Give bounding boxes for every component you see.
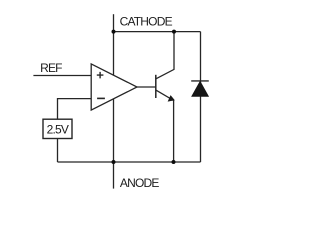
wire: anode lead (113, 162, 115, 189)
op-amp minus input symbol (97, 97, 105, 99)
wire: diode branch (200, 32, 202, 162)
wire: top cathode rail (114, 31, 201, 33)
op-amp U1 comparator triangle (91, 64, 137, 110)
wire: inverting input from voltage reference (58, 99, 92, 120)
wire: op-amp negative supply drop (113, 96, 115, 162)
wire: REF lead to non-inverting input (33, 75, 91, 77)
voltage reference box 2.5V (43, 119, 72, 138)
junction node: collector branch / top rail (172, 30, 176, 34)
diode D1 anode triangle (192, 82, 209, 97)
wire: op-amp output to base (137, 86, 156, 88)
transistor Q1 base bar (155, 75, 157, 98)
transistor Q1 emitter arrowhead (168, 96, 174, 101)
junction node: cathode lead / top rail (112, 30, 116, 34)
wire: transistor collector branch (156, 32, 174, 79)
junction node: emitter / bottom rail (172, 160, 176, 164)
wire: reference to anode rail (57, 139, 59, 163)
svg-text:CATHODE: CATHODE (120, 15, 173, 29)
svg-text:2.5V: 2.5V (47, 123, 69, 137)
transistor Q1 emitter (156, 90, 174, 162)
svg-text:REF: REF (40, 61, 62, 75)
wire: cathode lead (113, 14, 115, 31)
wire: bottom anode rail (58, 161, 201, 163)
svg-text:ANODE: ANODE (120, 176, 159, 190)
junction node: anode lead / bottom rail (112, 160, 116, 164)
diode D1 cathode bar (191, 80, 209, 82)
op-amp plus input symbol (97, 72, 104, 79)
wire: op-amp positive supply drop (113, 32, 115, 78)
